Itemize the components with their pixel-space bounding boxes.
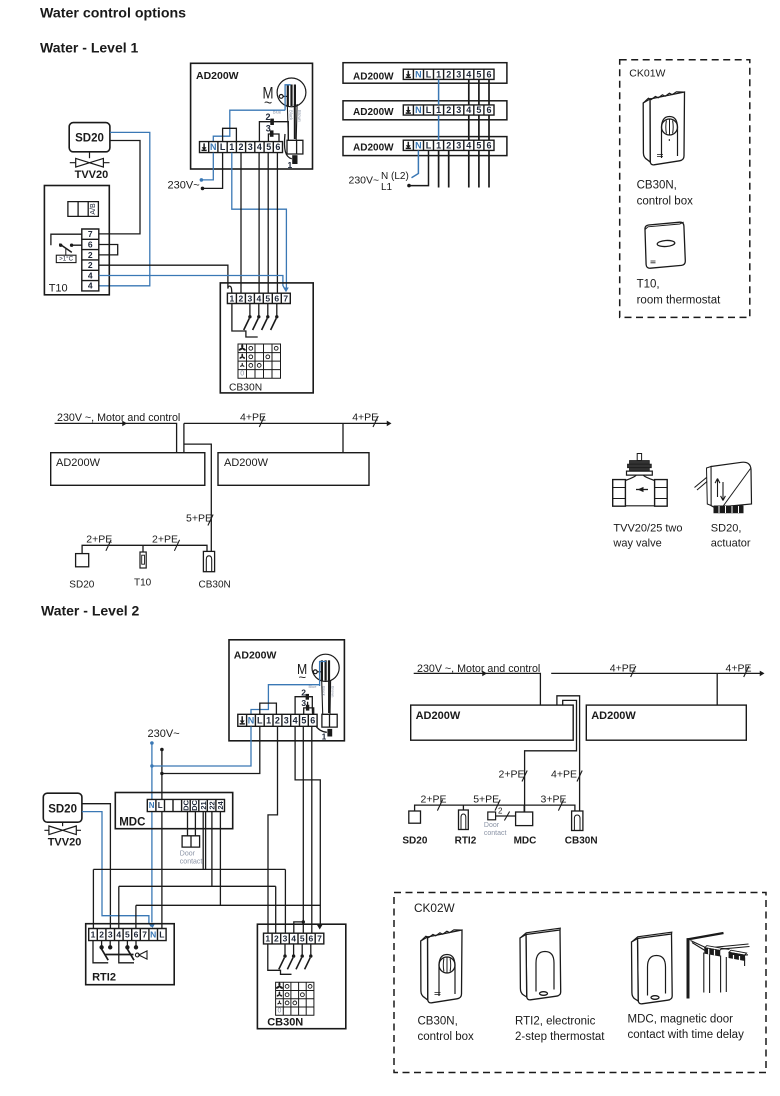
svg-text:1: 1 [436,69,441,79]
AD200W unit D box (single-line) [586,705,746,740]
control box CB30N (Level 2) enclosure [257,924,345,1028]
slash 2+PE a [106,540,111,551]
arrow into RTI2-N [150,923,156,928]
svg-text:2: 2 [274,934,279,944]
svg-text:2+PE: 2+PE [499,769,525,781]
switch S1 CB30N [244,304,252,331]
svg-text:2+PE: 2+PE [421,794,447,806]
motor M1 in U1 [277,78,306,107]
svg-text:1: 1 [266,715,271,725]
SD20 symbol L2 [409,811,421,823]
svg-text:SD20: SD20 [69,580,94,591]
sensor label box >1°C [56,255,76,262]
door contact module MDC enclosure [115,793,232,829]
svg-text:TVV20: TVV20 [75,169,109,181]
RTI2 symbol L2 [459,810,469,830]
T10 symbol L1 [140,552,146,568]
door contact switch [182,836,200,847]
2+PE wire unit C to MDC [525,700,577,812]
svg-text:6: 6 [309,934,314,944]
svg-text:3: 3 [456,105,461,115]
AD200W unit U2 (Level 2) enclosure [229,640,344,741]
svg-text:CK02W: CK02W [414,901,456,915]
svg-text:2: 2 [446,140,451,150]
motor wire brown U1 [294,104,296,139]
svg-text:Brown: Brown [331,686,336,697]
jumper 5-6 with pin3 U2 [304,702,314,715]
slash 4+PE b [373,416,378,427]
RTI2 internal common wires [93,941,134,963]
node L1 supply [407,184,411,188]
svg-text:N: N [415,140,422,150]
wires MDC to door contact [188,812,196,836]
svg-text:5: 5 [476,69,481,79]
svg-text:2+PE: 2+PE [86,534,112,546]
svg-text:CK01W: CK01W [629,68,665,80]
switch S4 CB30N L2 [305,944,313,969]
svg-text:4+PE: 4+PE [610,663,636,675]
terminal strip unit 3 [403,105,494,115]
svg-text:contact: contact [180,859,203,866]
svg-text:contact with time delay: contact with time delay [628,1029,745,1041]
wire U2-6 to CB30N-6 L2 [311,726,313,933]
svg-text:230V~: 230V~ [148,728,180,740]
svg-text:2-step thermostat: 2-step thermostat [515,1031,605,1043]
svg-text:N: N [415,69,422,79]
link blade to sensor label [65,249,67,255]
slash door contact wire [504,812,509,821]
wire U2-4 to CB30N-7 L2 [295,726,320,925]
motor connector U1 [287,140,303,154]
svg-text:2: 2 [239,293,244,303]
SD20 symbol L1 [76,554,89,567]
arrow on supply line L2 [482,671,487,677]
wire T10-2 to CB30N-1 [99,265,232,293]
drop to T10 symbol [142,545,144,552]
svg-text:6: 6 [88,240,93,250]
bus wire terminal4 between units [468,79,470,140]
svg-text:RTI2: RTI2 [455,836,477,847]
terminal strip T10 : 7 6 2 2 4 4 [82,229,99,291]
svg-text:AD200W: AD200W [234,650,277,662]
CB30N symbol L1 [203,551,214,571]
svg-text:230V~: 230V~ [168,180,200,192]
svg-text:2: 2 [446,105,451,115]
svg-text:5+PE: 5+PE [186,513,212,525]
blue motor wire hook U2 [320,662,326,687]
svg-text:5: 5 [265,293,270,303]
svg-text:SD20: SD20 [75,133,104,145]
svg-text:1: 1 [436,105,441,115]
svg-text:TVV20: TVV20 [48,837,82,849]
svg-text:N: N [149,801,155,810]
blue motor wire hook U1 [285,85,291,110]
supply line to unit A [55,423,177,452]
wire unit4 terminal1 down [438,150,440,187]
control bus SD20-T10-CB30N [82,545,207,553]
drop to RTI2-4 [118,886,120,928]
svg-text:5+PE: 5+PE [473,794,499,806]
drop to RTI2-6 [135,905,137,928]
drop into unit B [342,423,344,452]
svg-text:2: 2 [88,250,93,260]
svg-text:CB30N: CB30N [267,1017,303,1029]
wire U2-2 to CB30N-1 L2 [268,726,278,933]
svg-text:3: 3 [108,930,113,940]
node switch contact b [70,244,73,247]
svg-text:6: 6 [310,715,315,725]
wire T10 internal switch leads [51,234,82,245]
svg-text:AD200W: AD200W [591,710,636,722]
svg-text:SD20,: SD20, [711,523,742,535]
valve TVV20 (Level 2) [44,822,81,834]
svg-text:RTI2: RTI2 [92,972,116,984]
svg-text:5: 5 [125,930,130,940]
4+PE line between units L1 [184,422,388,424]
slash 4+PE c [631,666,636,677]
svg-text:5: 5 [476,140,481,150]
slash 4+PE d [744,666,749,677]
CB30N control box illustration CK01W [643,92,684,165]
AD200W unit box 4 [343,137,507,156]
terminal strip CB30N L2 : 1-7 [264,933,324,944]
wire bus RTI2-4 to CB30N-2 [119,885,276,887]
wire L to 230V supply [203,153,223,189]
accessory kit CK02W dashed box [394,893,766,1073]
bus wire terminal1 between units (blue) [438,79,440,140]
svg-text:5: 5 [476,105,481,115]
svg-text:L: L [158,801,163,810]
wire T10-4 to CB30N-7 (blue) [99,276,285,290]
svg-text:AD200W: AD200W [224,457,269,469]
wire SD20 to T10-4 (blue) [99,132,150,285]
svg-text:CB30N: CB30N [229,382,262,393]
control bus L2 [415,805,575,811]
bus N supply down through MDC (blue) [151,743,153,923]
svg-text:L: L [426,69,432,79]
svg-text:4: 4 [257,293,262,303]
svg-text:3+PE: 3+PE [541,794,567,806]
wire N to motor blue U1 [213,110,285,141]
svg-text:5: 5 [300,934,305,944]
svg-text:T10,: T10, [637,279,660,291]
node 230V N [200,178,204,182]
svg-text:6: 6 [275,142,280,152]
svg-text:6: 6 [274,293,279,303]
svg-text:1: 1 [230,293,235,303]
svg-text:T10: T10 [49,283,68,295]
svg-text:7: 7 [142,930,147,940]
svg-text:N: N [248,715,255,725]
drop into unit D [716,673,718,705]
wire U2-N to supply (blue) [152,726,251,766]
svg-text:4: 4 [291,934,296,944]
AD200W unit U1 (Level 1) enclosure [191,63,313,169]
svg-text:6: 6 [486,105,491,115]
drop to RTI2-1 [92,869,94,928]
svg-text:3: 3 [284,715,289,725]
svg-text:4: 4 [88,270,93,280]
svg-text:room thermostat: room thermostat [637,295,722,307]
actuator SD20 (Level 1) [69,123,110,152]
AD200W unit C box (single-line) [411,705,574,740]
wire N supply drop (blue) [412,150,419,177]
switch S3 CB30N L2 [296,944,304,969]
wire U1-1 to CB30N-7 (blue) [232,153,287,289]
svg-text:4: 4 [466,140,471,150]
drops to RTI2 and MDC symbols [463,805,524,812]
terminal strip U2 : earth N L 1-6 [238,714,317,726]
4+PE line L2 [551,672,760,674]
valve TVV20/25 illustration [613,454,667,507]
svg-text:2: 2 [446,69,451,79]
door frame with magnetic contact illustration [687,933,750,999]
switch S4 CB30N [271,304,279,331]
svg-text:CB30N: CB30N [199,580,231,591]
wire U2-5 to CB30N-5 L2 [302,726,304,933]
svg-text:AD200W: AD200W [353,71,394,82]
wire L1 supply drop [409,150,429,185]
svg-text:4+PE: 4+PE [352,412,378,424]
svg-text:4+PE: 4+PE [240,412,266,424]
svg-text:AD200W: AD200W [353,142,394,153]
svg-text:1: 1 [91,930,96,940]
svg-text:A/B: A/B [90,203,97,215]
svg-text:Door: Door [484,822,500,829]
slash 4+PE CB30N [577,771,582,782]
thermostat RTI2 enclosure [86,924,175,985]
valve TVV20 (Level 1) [70,152,110,167]
wire SD20 to T10-7 [99,141,140,234]
svg-text:MDC, magnetic door: MDC, magnetic door [628,1014,734,1026]
bus L supply down through MDC [161,750,163,929]
accessory kit CK01W dashed box [620,60,750,318]
T10 room thermostat illustration CK01W [645,222,685,268]
svg-text:4: 4 [88,281,93,291]
wire unit4 terminal5 down [478,150,480,187]
svg-text:4: 4 [116,930,121,940]
svg-text:3: 3 [248,142,253,152]
motor cable sheath U1 [287,104,297,140]
svg-text:Black: Black [322,686,327,696]
AD200W unit A box (single-line) [51,453,205,486]
svg-text:0: 0 [277,1008,281,1015]
door contact symbol [488,812,496,820]
svg-text:Water - Level 2: Water - Level 2 [41,603,140,619]
svg-text:Water control options: Water control options [40,6,186,22]
wire MDC-22 down [211,812,213,887]
wire bus RTI2-6 to CB30N-7 [136,904,320,906]
speed selection table CB30N L2 [275,982,313,1015]
svg-text:AD200W: AD200W [56,457,101,469]
svg-text:L: L [426,140,432,150]
svg-text:contact: contact [484,830,507,837]
MDC symbol L2 [516,812,533,826]
svg-text:L: L [257,715,263,725]
svg-text:Water - Level 1: Water - Level 1 [40,40,139,56]
svg-text:2+PE: 2+PE [152,534,178,546]
svg-text:7: 7 [283,293,288,303]
svg-text:3: 3 [248,293,253,303]
svg-text:AD200W: AD200W [416,710,461,722]
jumper 5-6 with pin3 U1 [268,134,279,142]
svg-text:Brown: Brown [297,110,302,123]
svg-text:N: N [415,105,422,115]
terminal strip RTI2 : 1-7 N L [89,929,166,941]
junction L supply [160,772,163,775]
MDC contact illustration CK02W [632,932,673,1004]
svg-text:5: 5 [301,715,306,725]
svg-text:L: L [220,142,226,152]
slash 2+PE MDC [522,771,527,782]
svg-text:5: 5 [266,142,271,152]
bridge CB30N 4-5 L2 [294,922,304,933]
svg-text:2: 2 [99,930,104,940]
svg-text:~: ~ [299,670,307,685]
motor plug pin1 U2 [327,729,332,737]
arrow into CB30N terminal 7 [283,287,289,292]
selector cells A/B in T10 [68,202,99,217]
RTI2 internal switch contacts [100,941,138,961]
svg-text:4+PE: 4+PE [726,663,752,675]
svg-text:T10: T10 [134,578,152,589]
svg-text:3: 3 [456,69,461,79]
slash 2+PE b [174,540,179,551]
slash 4+PE a [259,416,264,427]
svg-text:6: 6 [486,140,491,150]
svg-text:way valve: way valve [612,538,661,550]
motor wire brown U2 [328,680,330,713]
slash 5+PE [208,515,213,526]
svg-text:>1°C: >1°C [59,256,74,263]
wire terminal4 via pin2 to plug U2 [295,697,327,733]
svg-text:1: 1 [229,142,234,152]
jumper L-1 U2 [260,703,277,714]
svg-text:L: L [426,105,432,115]
svg-text:2: 2 [88,260,93,270]
svg-text:actuator: actuator [711,538,751,550]
actuator SD20 illustration [695,462,752,513]
node switch contact a [59,244,62,247]
node 230V L [201,187,205,191]
motor M2 in U2 [312,654,339,681]
wire unit4 terminal4 down [468,150,470,187]
4+PE wire unit C to CB30N L2 [557,696,580,811]
svg-text:Black: Black [289,110,294,121]
wire U1-2 to CB30N-2 [240,153,242,294]
AD200W unit B box (single-line) [218,453,369,486]
CB30N control box illustration CK02W [421,930,462,1003]
wire MDC-24 down [219,812,221,906]
switch S1 CB30N L2 [279,944,287,969]
wire door contact to MDC [496,815,516,817]
svg-text:2: 2 [238,142,243,152]
svg-text:AD200W: AD200W [353,107,394,118]
svg-text:4: 4 [466,69,471,79]
actuator SD20 (Level 2) [43,793,82,822]
node supply L L2 [160,748,164,752]
wire N to 230V supply (blue) [201,153,213,180]
wire U1-4 to CB30N-4 [258,153,260,294]
wire N to motor blue U2 [251,685,320,715]
svg-text:N: N [210,142,217,152]
svg-text:4: 4 [257,142,262,152]
svg-text:CB30N,: CB30N, [637,180,677,192]
slash 3+PE CB30N [558,800,563,811]
svg-text:1: 1 [265,934,270,944]
svg-text:RTI2, electronic: RTI2, electronic [515,1016,596,1028]
svg-text:4: 4 [466,105,471,115]
terminal strip unit 2 [403,69,494,79]
drop into unit A [183,423,185,452]
svg-text:230V ~, Motor and control: 230V ~, Motor and control [57,412,180,424]
svg-text:7: 7 [88,229,93,239]
switch blade T10 [59,244,72,253]
svg-text:TVV20/25 two: TVV20/25 two [613,523,682,535]
wires MDC-21 down [203,812,205,870]
jumper L-1 U1 [223,128,237,141]
control box CB30N (Level 1) enclosure [220,283,313,393]
switch S2 CB30N L2 [287,944,295,969]
svg-text:AD200W: AD200W [196,70,239,82]
wire unit4 terminal6 down [488,150,490,187]
motor plug pin1 U1 [292,155,297,164]
terminal strip U1 : earth N L 1-6 [200,142,283,153]
motor cable sheath U2 [322,681,331,715]
svg-text:2: 2 [266,112,271,122]
svg-text:~: ~ [264,95,272,111]
svg-text:N: N [150,930,156,940]
svg-text:2: 2 [301,687,306,697]
svg-text:1: 1 [436,140,441,150]
5+PE wire to CB30N [184,444,211,551]
wire CB30N L2 common from terminal 1 [268,944,292,974]
svg-text:0: 0 [240,370,244,377]
wire to motor plug U1 [284,134,291,159]
arrow into CB30N-7 L2 [317,925,323,930]
slash 5+PE RTI2 [495,800,500,811]
wire MDC21 bus RTI2-1 to CB30N-3 [93,868,285,870]
svg-text:MDC: MDC [514,836,537,847]
svg-text:24: 24 [216,801,225,810]
svg-text:3: 3 [283,934,288,944]
terminal strip CB30N : 1-7 [227,293,290,303]
terminal strip MDC [147,799,224,811]
svg-text:control box: control box [418,1031,475,1043]
RTI2 thermostat illustration CK02W [520,928,561,1000]
motor connector U2 [322,714,337,727]
wire SD20 to RTI2-3 [82,804,111,929]
svg-text:6: 6 [134,930,139,940]
slash 2+PE SD20 [437,800,442,811]
wire U1-6 to CB30N-6 [276,153,278,294]
jumper T10 6-2 [99,245,118,255]
svg-text:3: 3 [456,140,461,150]
switch S2 CB30N [253,304,261,331]
arrow 4+PE end L1 [387,421,392,427]
svg-text:CB30N,: CB30N, [418,1016,458,1028]
node supply N L2 [150,741,154,745]
arrow on supply line L1 [122,421,127,427]
AD200W unit box 2 [343,63,507,83]
svg-text:7: 7 [317,934,322,944]
svg-text:1: 1 [322,733,327,742]
CB30N symbol L2 [572,811,583,831]
svg-text:2: 2 [275,715,280,725]
svg-text:230V~: 230V~ [349,175,380,187]
drop to CB30N-3 [284,869,286,933]
svg-text:4: 4 [293,715,298,725]
